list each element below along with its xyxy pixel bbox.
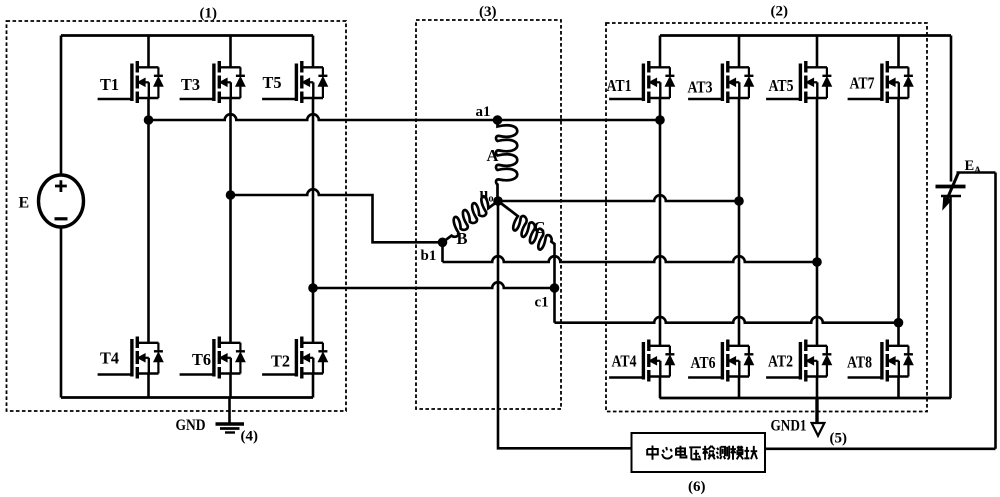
transistor AT4 bbox=[609, 340, 674, 382]
transistor T1 bbox=[98, 61, 163, 103]
dashed box (1) inverter block bbox=[7, 21, 347, 411]
wire: AT1 leg drain bbox=[659, 36, 662, 68]
transistor T3 bbox=[180, 61, 245, 103]
svg-text:A: A bbox=[487, 146, 499, 165]
transistor AT2 bbox=[766, 340, 831, 382]
detection module text 中心电压检测模块 bbox=[647, 446, 757, 460]
dashed box (2) converter block bbox=[606, 23, 927, 412]
node dot AT5 bbox=[812, 257, 822, 267]
inductor B winding bbox=[435, 191, 500, 246]
wire: block2 bottom rail bbox=[660, 397, 952, 400]
svg-text:(6): (6) bbox=[688, 479, 706, 495]
wire: AT7 leg drain bbox=[897, 36, 900, 68]
wire: T5-T2 leg middle bbox=[312, 98, 315, 343]
wire: T2 source to rail bbox=[312, 374, 315, 398]
wire: u0 center drop to detection module bbox=[498, 201, 632, 448]
wire: u0 to AT3 with hop bbox=[498, 195, 739, 201]
ground GND bars bbox=[216, 422, 245, 425]
node dot c1 bbox=[550, 283, 560, 293]
svg-text:AT4: AT4 bbox=[612, 352, 637, 371]
node dot a1 bbox=[493, 115, 503, 125]
wire: AT5 leg drain bbox=[816, 36, 819, 68]
voltage source E circle bbox=[39, 175, 84, 227]
wire: AT7-AT8 leg middle bbox=[897, 98, 900, 346]
svg-text:(4): (4) bbox=[241, 429, 259, 445]
svg-text:GND1: GND1 bbox=[771, 418, 807, 435]
transistor T2 bbox=[262, 337, 327, 379]
transistor AT3 bbox=[688, 61, 753, 103]
svg-text:AT1: AT1 bbox=[607, 76, 632, 95]
wire: phase b from T3 with hop and step down to b1 bbox=[231, 189, 443, 242]
battery EA long plate bbox=[936, 185, 966, 189]
wire: AT5-AT2 leg middle bbox=[816, 98, 819, 346]
E minus sign bbox=[55, 217, 68, 220]
svg-text:T4: T4 bbox=[100, 349, 119, 368]
node dot AT1 bbox=[655, 115, 665, 125]
battery EA bottom lead bbox=[949, 196, 952, 398]
svg-text:AT7: AT7 bbox=[850, 74, 875, 93]
wire: AT4 source to rail bbox=[659, 377, 662, 399]
dashed box (3) motor winding block bbox=[416, 20, 561, 409]
ground GND stub bbox=[228, 398, 231, 424]
transistor T5 bbox=[262, 61, 327, 103]
svg-text:b1: b1 bbox=[421, 248, 437, 264]
battery EA arrowhead bbox=[943, 197, 950, 208]
node dot T2 output bbox=[308, 283, 318, 293]
wire: right bus to detection module bbox=[765, 447, 996, 450]
battery EA adjust arrow bbox=[946, 173, 958, 201]
node dot T3 output bbox=[226, 190, 236, 200]
wire: T3-T6 leg middle bbox=[229, 98, 232, 343]
wire: phase a from T1 to AT1 with hops bbox=[149, 114, 661, 120]
svg-text:(1): (1) bbox=[200, 6, 218, 22]
wire: phase c from T2 to c1 with hop bbox=[313, 282, 555, 288]
svg-text:GND: GND bbox=[176, 417, 206, 434]
E plus sign bbox=[55, 180, 67, 192]
svg-text:c1: c1 bbox=[535, 295, 549, 311]
svg-text:B: B bbox=[457, 229, 468, 248]
wire: AT6 source to rail bbox=[738, 377, 741, 399]
transistor T6 bbox=[180, 337, 245, 379]
transistor T4 bbox=[98, 337, 163, 379]
wire: b1 line to AT5 with hops bbox=[443, 256, 818, 262]
svg-text:T6: T6 bbox=[192, 350, 211, 369]
transistor AT5 bbox=[766, 61, 831, 103]
node dot u0 bbox=[493, 196, 503, 206]
transistor AT1 bbox=[609, 61, 674, 103]
node dot AT3 bbox=[734, 196, 744, 206]
node dot T1 output bbox=[144, 115, 154, 125]
transistor AT7 bbox=[848, 61, 913, 103]
svg-text:T2: T2 bbox=[271, 352, 290, 371]
wire: T1 leg drain bbox=[147, 36, 150, 68]
wire: EA top to right bus bbox=[957, 171, 996, 174]
svg-text:T5: T5 bbox=[263, 73, 282, 92]
wire: right bus vertical bbox=[994, 173, 997, 449]
svg-text:(3): (3) bbox=[479, 4, 497, 20]
svg-text:C: C bbox=[534, 218, 546, 237]
svg-text:AT5: AT5 bbox=[769, 76, 794, 95]
svg-text:AT3: AT3 bbox=[688, 78, 713, 97]
wire: block2 top rail bbox=[660, 34, 951, 37]
wire: E source top lead bbox=[60, 36, 63, 176]
node dot b1 bbox=[438, 238, 448, 248]
svg-text:uo: uo bbox=[480, 186, 494, 205]
wire: T6 source to rail bbox=[229, 374, 232, 398]
ground GND1 arrow bbox=[812, 423, 825, 436]
svg-text:(5): (5) bbox=[830, 431, 848, 447]
wire: AT2 source to rail bbox=[816, 377, 819, 399]
wire: c1 vertical bbox=[553, 243, 556, 323]
inductor C winding bbox=[490, 198, 557, 255]
wire: T5 leg drain bbox=[312, 36, 315, 68]
ground GND1 stub bbox=[815, 398, 818, 423]
svg-text:AT8: AT8 bbox=[847, 353, 872, 372]
detection module box bbox=[632, 433, 766, 472]
wire: E source bottom lead bbox=[60, 227, 63, 398]
battery EA top lead bbox=[950, 36, 953, 182]
svg-text:T3: T3 bbox=[181, 75, 200, 94]
wire: AT3 leg drain bbox=[738, 36, 741, 68]
wire: T3 leg drain bbox=[229, 36, 232, 68]
inductor A winding bbox=[496, 120, 517, 201]
transistor AT8 bbox=[848, 340, 913, 382]
svg-text:EA: EA bbox=[965, 158, 982, 176]
wire: AT3-AT6 leg middle bbox=[738, 98, 741, 346]
node dot AT7 bbox=[894, 318, 904, 328]
svg-text:AT2: AT2 bbox=[768, 352, 793, 371]
transistor AT6 bbox=[688, 340, 753, 382]
svg-text:E: E bbox=[19, 195, 30, 212]
wire: AT8 source to rail bbox=[897, 377, 900, 399]
svg-text:(2): (2) bbox=[771, 4, 789, 20]
wire: b1 drop bbox=[441, 242, 444, 262]
wire: block1 bottom rail bbox=[61, 396, 313, 399]
svg-text:a1: a1 bbox=[476, 104, 491, 120]
svg-text:T1: T1 bbox=[100, 75, 119, 94]
wire: T4 source to rail bbox=[147, 374, 150, 398]
wire: AT1-AT4 leg middle bbox=[659, 98, 662, 346]
battery EA short plate bbox=[941, 195, 961, 198]
wire: c1 line to AT7 with hops bbox=[555, 317, 899, 323]
svg-text:AT6: AT6 bbox=[691, 353, 716, 372]
wire: block1 top rail bbox=[61, 34, 313, 37]
wire: T1-T4 leg middle bbox=[147, 98, 150, 343]
